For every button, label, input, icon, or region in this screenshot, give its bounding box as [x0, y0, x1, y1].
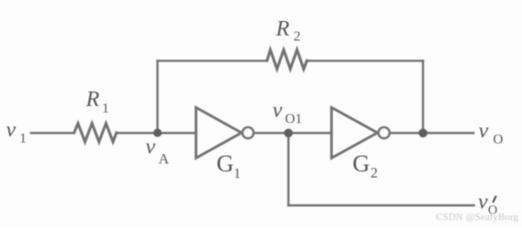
wire top rail left of R2 [158, 60, 268, 62]
svg-text:CSDN @SealyBorg: CSDN @SealyBorg [436, 212, 519, 223]
inverter G2 bubble [378, 127, 389, 138]
svg-text:O: O [493, 133, 503, 148]
svg-text:R: R [85, 86, 100, 111]
svg-text:v: v [146, 134, 156, 159]
svg-text:1: 1 [20, 132, 27, 147]
wire top rail right of R2 [307, 60, 423, 62]
node O1 junction dot [284, 129, 293, 138]
wire right vertical feedback branch [422, 61, 424, 133]
svg-text:v: v [273, 97, 283, 122]
resistor R1 [74, 123, 117, 141]
inverter G1 bubble [242, 127, 253, 138]
svg-text:2: 2 [371, 166, 378, 182]
svg-text:G: G [217, 152, 234, 178]
wire G2 output to vO through output node [390, 132, 474, 134]
wire left vertical feedback branch [156, 61, 158, 133]
node output junction dot [419, 129, 428, 138]
svg-text:2: 2 [294, 30, 301, 45]
wire input segment from v1 to R1 [31, 132, 74, 134]
inverter G2 triangle [332, 108, 378, 159]
wire branch from node O1 down [287, 133, 289, 205]
svg-text:1: 1 [102, 102, 109, 117]
wire bottom branch to vO' [288, 204, 474, 206]
inverter G1 triangle [196, 108, 242, 159]
svg-text:v: v [6, 117, 16, 142]
wire R1 to G1 input through node A [117, 132, 197, 134]
svg-text:O1: O1 [285, 112, 302, 127]
svg-text:v: v [479, 118, 489, 143]
svg-text:1: 1 [234, 166, 241, 182]
wire G1 output to G2 input through node O1 [254, 132, 332, 134]
svg-text:A: A [159, 152, 170, 168]
svg-text:v: v [478, 189, 488, 214]
svg-text:R: R [275, 15, 290, 40]
node A junction dot [153, 129, 161, 137]
svg-text:G: G [353, 152, 370, 178]
resistor R2 [267, 50, 307, 69]
